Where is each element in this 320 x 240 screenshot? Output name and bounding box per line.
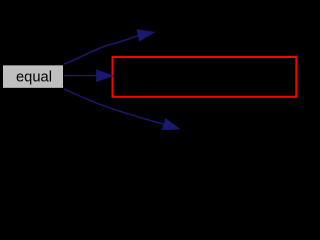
- svg-text:equal: equal: [16, 68, 52, 85]
